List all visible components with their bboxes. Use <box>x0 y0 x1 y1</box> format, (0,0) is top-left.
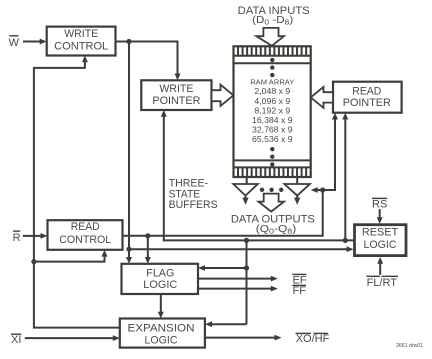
node EF label <box>292 274 307 286</box>
wire V2 read line to FLAG LOGIC <box>145 236 151 264</box>
node FL/RT input label <box>367 276 399 289</box>
ram input register hatch ticks <box>238 46 306 56</box>
svg-text:(D0 -D8): (D0 -D8) <box>252 15 293 27</box>
wire block arrow READ POINTER to RAM <box>311 87 333 108</box>
ram array U: RAM box <box>234 46 311 177</box>
svg-text:LOGIC: LOGIC <box>143 279 177 291</box>
svg-text:32,768 x 9: 32,768 x 9 <box>252 125 293 135</box>
ram ellipsis dots bottom <box>270 147 274 167</box>
reset logic U: RESET LOGIC box <box>355 225 407 256</box>
svg-text:2661 drw01: 2661 drw01 <box>396 343 423 349</box>
svg-text:CONTROL: CONTROL <box>59 234 111 246</box>
wire RAM to left output buffer <box>246 177 248 184</box>
svg-text:LOGIC: LOGIC <box>364 239 397 251</box>
svg-text:RS: RS <box>372 199 387 211</box>
wire arrow below left buffer <box>242 195 248 205</box>
three-state buffer triangle left <box>233 184 257 196</box>
wire block arrow WRITE POINTER to RAM <box>212 85 234 106</box>
wire FF output <box>198 286 278 292</box>
wire WRITE POINTER bottom to reset line H2 <box>161 110 355 240</box>
wire XI to EXPANSION LOGIC <box>25 335 120 341</box>
svg-text:BUFFERS: BUFFERS <box>169 199 218 211</box>
wire feedback branch to READ CONTROL <box>34 250 108 262</box>
wire FL/RT to RESET LOGIC <box>377 257 383 275</box>
node junction dot branch <box>244 265 249 270</box>
wire RS to RESET LOGIC <box>377 209 383 224</box>
ram array text labels <box>250 77 294 144</box>
svg-text:8,192 x 9: 8,192 x 9 <box>254 105 290 115</box>
svg-text:EXPANSION: EXPANSION <box>128 322 195 334</box>
svg-text:2,048 x 9: 2,048 x 9 <box>254 86 290 96</box>
wire branch down to FLAG and EXPANSION right side <box>198 240 247 327</box>
wire FLAG LOGIC to EXPANSION LOGIC <box>158 294 164 319</box>
svg-text:POINTER: POINTER <box>343 97 391 109</box>
svg-text:65,536 x 9: 65,536 x 9 <box>252 134 293 144</box>
flag logic U: FLAG LOGIC box <box>122 264 199 294</box>
wire hollow arrow DATA OUTPUTS <box>258 194 284 212</box>
three-state buffers label <box>169 178 218 212</box>
svg-text:RESET: RESET <box>362 227 399 239</box>
svg-text:READ: READ <box>352 86 381 98</box>
svg-text:READ: READ <box>71 221 100 233</box>
read control U: READ CONTROL box <box>48 220 123 250</box>
svg-text:FLAG: FLAG <box>146 267 174 279</box>
wire RAM to right output buffer <box>296 177 298 184</box>
wire EXPANSION output to XO/HF <box>205 335 282 341</box>
node junction dot D2 <box>145 233 150 238</box>
ram ellipsis dots top <box>270 58 274 78</box>
node DATA INPUTS label <box>238 5 310 26</box>
svg-text:FF: FF <box>293 285 307 297</box>
node RS input label <box>372 198 387 210</box>
node FF label <box>292 285 306 297</box>
svg-text:WRITE: WRITE <box>159 83 193 95</box>
wire WRITE CONTROL feedback loop <box>34 56 120 328</box>
svg-text:RAM ARRAY: RAM ARRAY <box>250 77 294 86</box>
node R input label <box>13 231 21 244</box>
wire W to WRITE CONTROL <box>23 39 47 45</box>
svg-text:(Q0-Q8): (Q0-Q8) <box>256 224 297 236</box>
wire read enable line to buffers and READ POINTER <box>123 113 339 236</box>
node junction dot on feedback line <box>31 259 36 264</box>
wire R to READ CONTROL <box>23 233 48 239</box>
svg-text:DATA OUTPUTS: DATA OUTPUTS <box>231 213 315 225</box>
node DATA OUTPUTS label <box>231 213 315 235</box>
svg-text:16,384 x 9: 16,384 x 9 <box>252 115 293 125</box>
wire arrow below right buffer <box>294 195 300 205</box>
read pointer U: READ POINTER box <box>333 82 402 113</box>
node junction dots on reset line H2 <box>244 238 249 243</box>
expansion logic U: EXPANSION LOGIC box <box>120 319 205 348</box>
wire H3 write line to RESET LOGIC <box>129 246 354 252</box>
svg-text:XO/HF: XO/HF <box>296 333 330 345</box>
three-state buffer triangle right <box>284 184 310 196</box>
wire hollow arrow DATA INPUTS into RAM <box>257 28 285 46</box>
ellipsis dots between buffers <box>260 188 284 192</box>
wire WRITE CONTROL output to WRITE POINTER <box>116 42 181 81</box>
svg-text:4,096 x 9: 4,096 x 9 <box>254 96 290 106</box>
svg-text:WRITE: WRITE <box>64 28 98 40</box>
svg-text:CONTROL: CONTROL <box>54 41 108 53</box>
svg-text:R: R <box>13 232 21 244</box>
node junction dot D1 <box>126 247 131 252</box>
wire READ POINTER bottom from reset line <box>342 113 348 241</box>
node junction dot read line <box>320 187 325 192</box>
write pointer U: WRITE POINTER box <box>141 80 211 110</box>
svg-text:LOGIC: LOGIC <box>145 334 178 346</box>
svg-text:XI: XI <box>11 334 21 346</box>
svg-text:FL/RT: FL/RT <box>367 277 398 289</box>
node W input label <box>9 36 20 49</box>
node junction dot on write line <box>126 39 131 44</box>
svg-text:W: W <box>9 37 20 49</box>
node XO/HF label <box>296 333 330 345</box>
svg-text:POINTER: POINTER <box>152 95 200 107</box>
node XI input label <box>11 334 21 346</box>
ram output register hatch ticks <box>238 167 306 177</box>
wire V1 write line down to FLAG LOGIC <box>126 42 132 264</box>
wire EF output <box>198 276 278 282</box>
write control U: WRITE CONTROL box <box>47 27 116 56</box>
